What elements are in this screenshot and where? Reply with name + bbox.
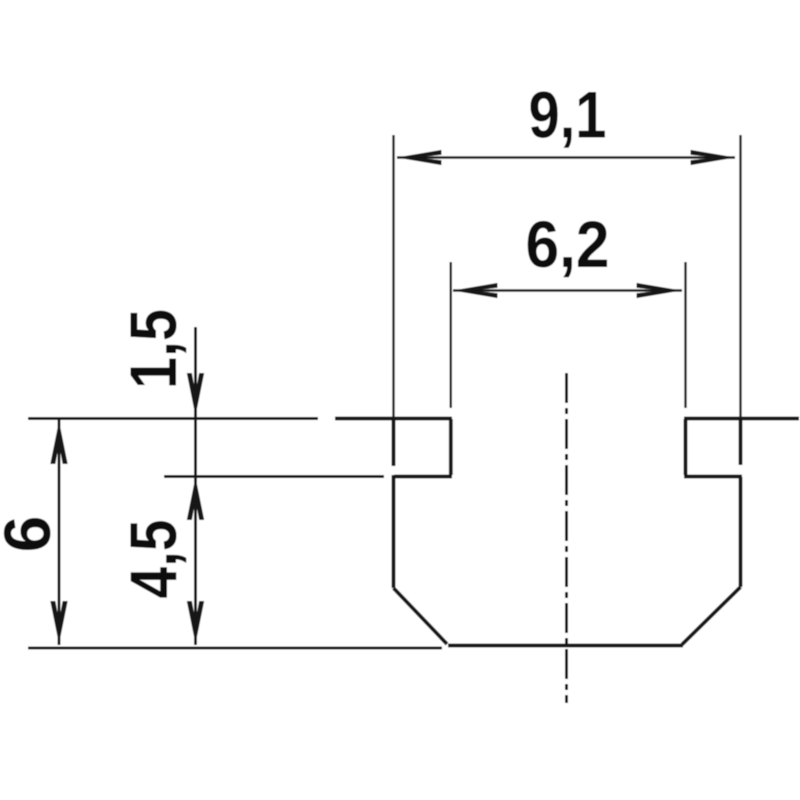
svg-text:9,1: 9,1 [529, 78, 607, 152]
svg-text:6,2: 6,2 [526, 207, 610, 281]
svg-text:1,5: 1,5 [116, 309, 190, 389]
svg-text:4,5: 4,5 [116, 520, 190, 599]
svg-text:6: 6 [0, 516, 64, 553]
